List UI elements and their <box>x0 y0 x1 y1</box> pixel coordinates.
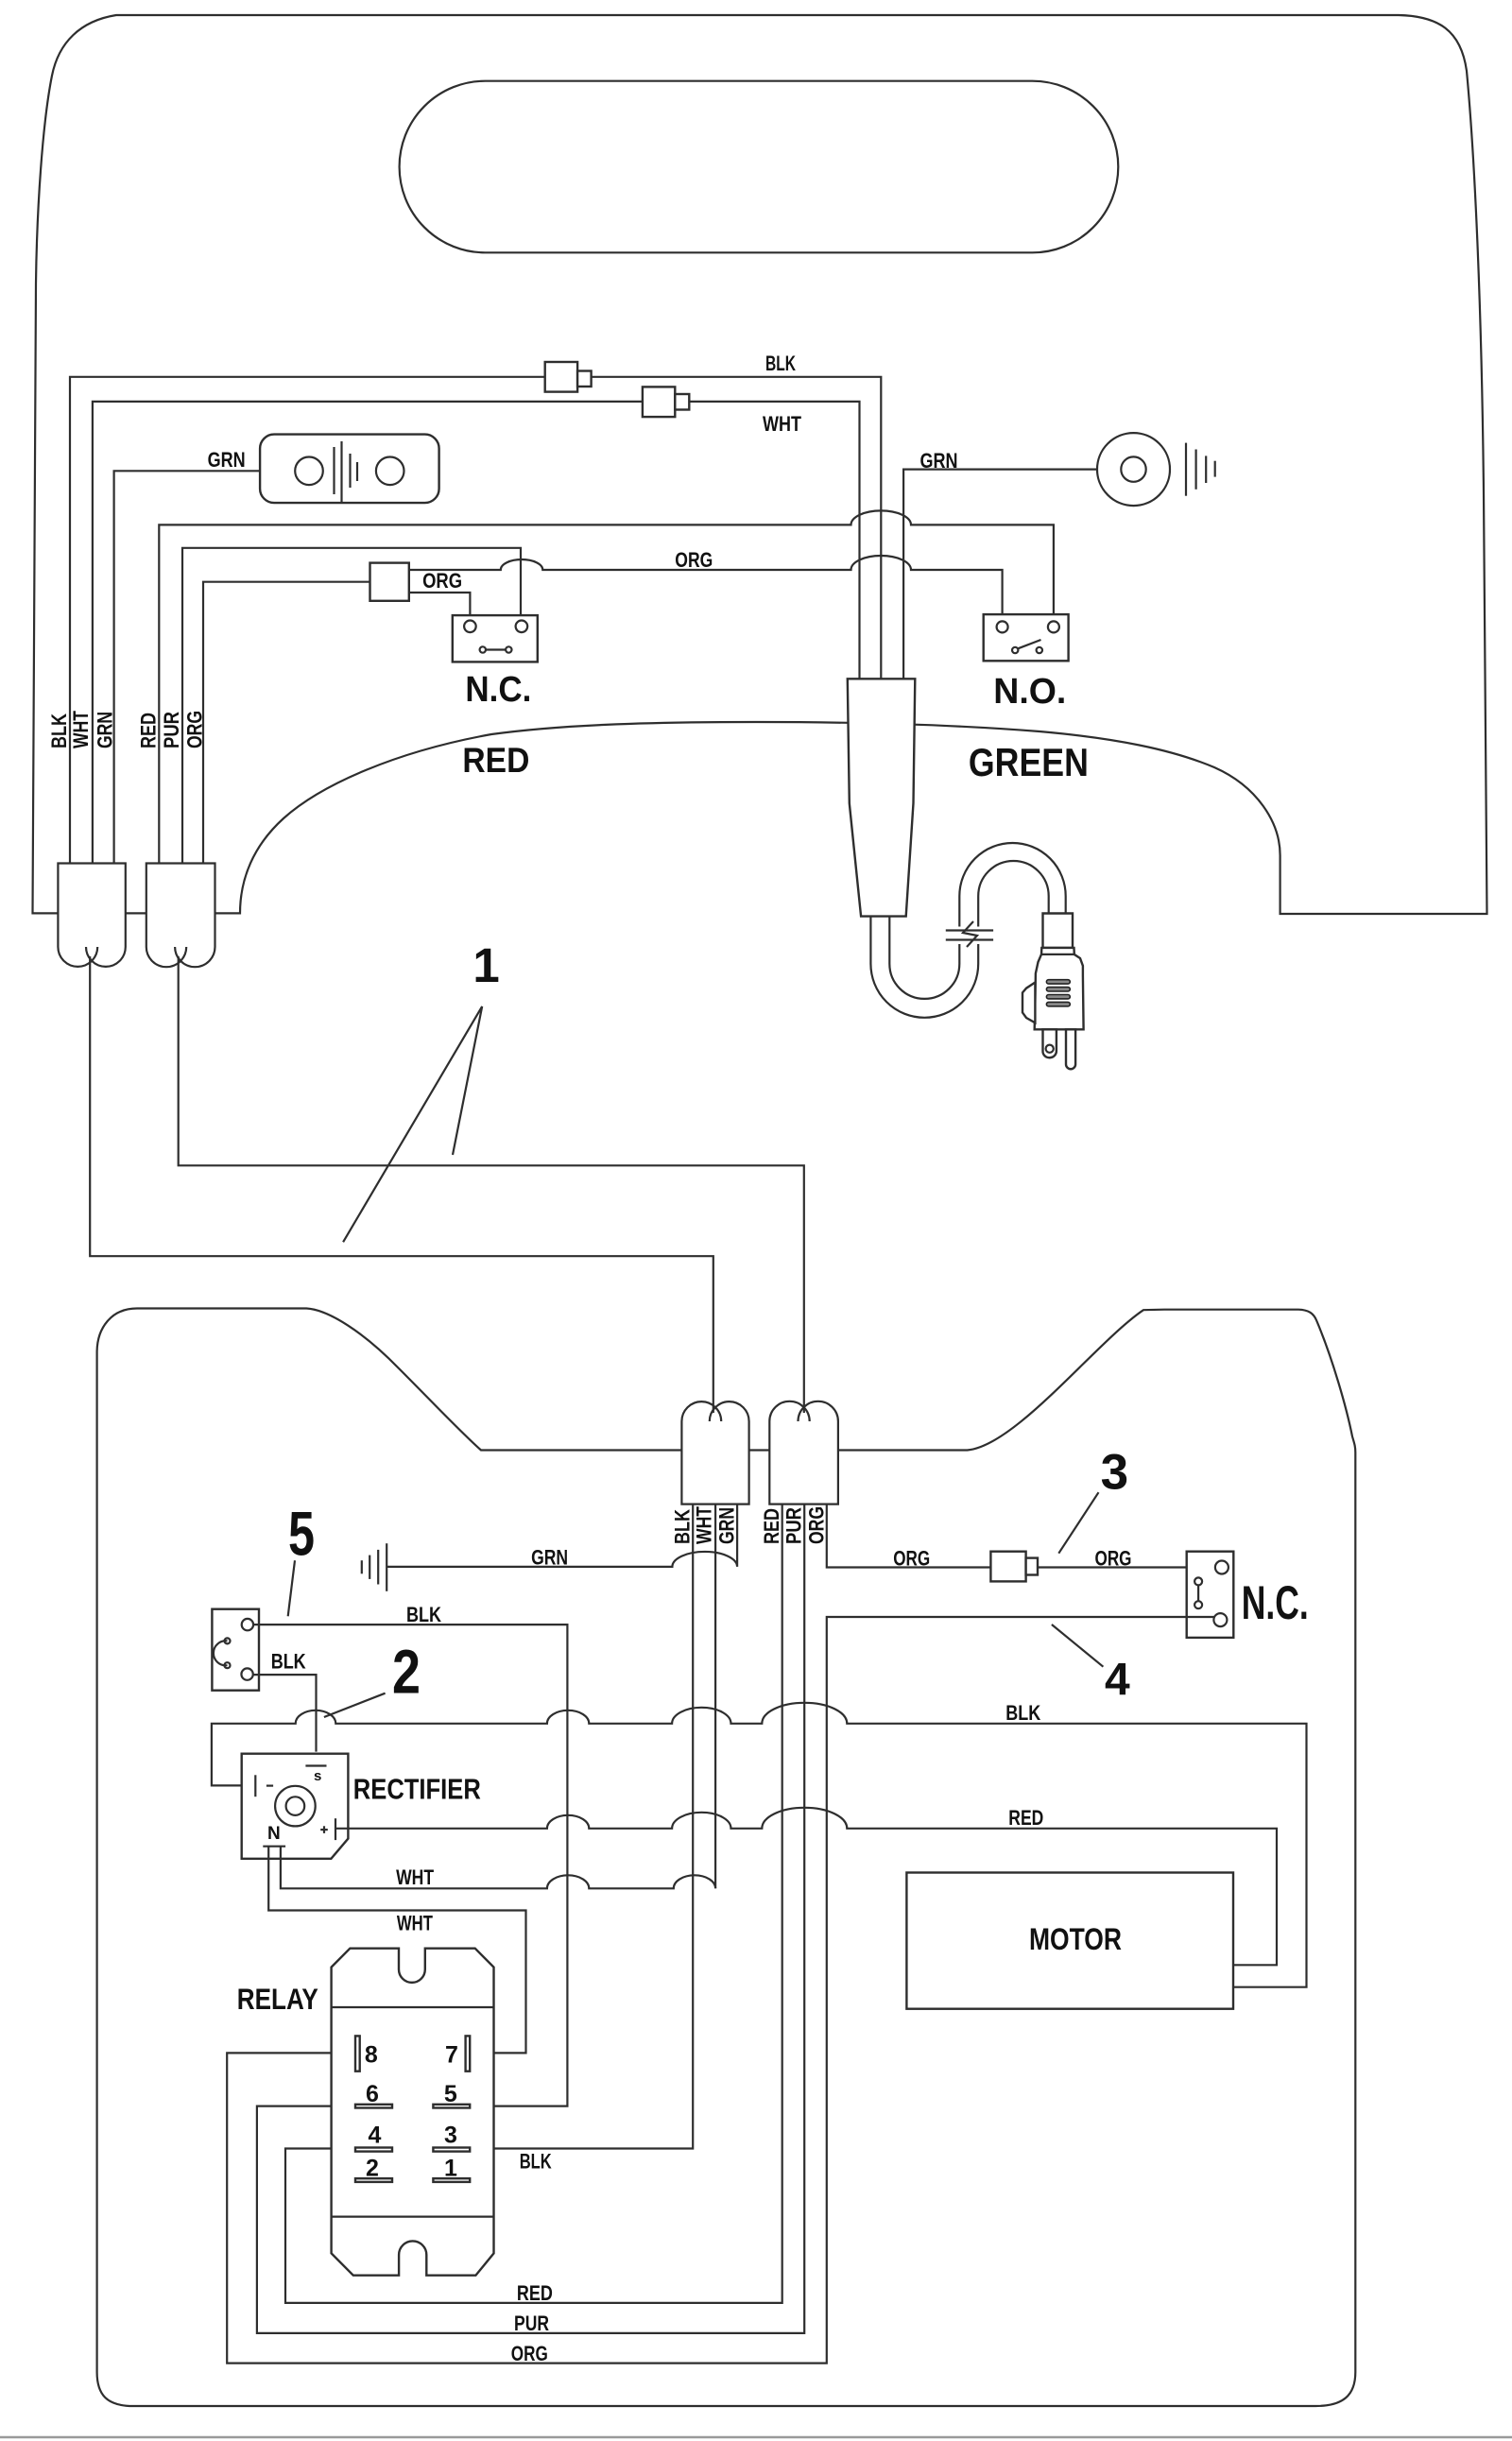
wire PUR cable to relay pin 6 <box>257 1504 804 2333</box>
svg-text:ORG: ORG <box>511 2342 548 2365</box>
wire ORG to N.C. left terminal <box>409 593 471 622</box>
cable sheath (lower right, 3-wire) <box>769 1401 838 1504</box>
svg-text:BLK: BLK <box>671 1509 695 1544</box>
leader line for callout 4 <box>1052 1624 1104 1667</box>
ground symbol (chassis) <box>362 1543 387 1591</box>
wire WHT rectifier(N) to relay pin 7 <box>268 1847 525 2054</box>
svg-text:PUR: PUR <box>514 2312 549 2335</box>
svg-text:RELAY: RELAY <box>237 1982 318 2016</box>
wire BLK from connector 5 to rectifier S <box>252 1675 317 1752</box>
strain relief boot (power cord) <box>848 679 916 916</box>
relay pin 3 <box>433 2148 470 2152</box>
page border line <box>0 2436 1512 2439</box>
connector 5 (2-pin plug) <box>212 1609 259 1691</box>
wire RED rectifier(+) to motor <box>335 1808 1277 1966</box>
cable 2 (to lower unit, right) <box>179 956 804 1413</box>
svg-text:BLK: BLK <box>765 352 796 375</box>
relay pin 8 <box>355 2036 360 2071</box>
svg-text:1: 1 <box>444 2156 457 2182</box>
svg-text:GREEN: GREEN <box>969 740 1089 784</box>
svg-text:BLK: BLK <box>271 1650 306 1674</box>
switch N.C. (red button) <box>453 615 538 662</box>
relay K1 <box>332 1949 494 2276</box>
cable sheath (upper right, 3-wire) <box>146 864 215 968</box>
rectifier U1 <box>242 1754 349 1859</box>
svg-text:N.C.: N.C. <box>1242 1576 1309 1629</box>
svg-text:WHT: WHT <box>69 711 93 748</box>
svg-text:N.C.: N.C. <box>465 670 531 710</box>
connector (inline, BLK bus) <box>545 362 592 392</box>
svg-text:5: 5 <box>444 2081 457 2107</box>
svg-text:N.O.: N.O. <box>993 672 1066 712</box>
svg-text:GRN: GRN <box>208 448 246 472</box>
power cord (U loop to plug) <box>870 861 1048 1018</box>
svg-text:ORG: ORG <box>675 548 713 572</box>
relay pin 2 <box>355 2178 392 2182</box>
svg-text:BLK: BLK <box>47 713 71 748</box>
svg-text:RED: RED <box>1008 1806 1043 1830</box>
wire ORG from sheath to connector <box>203 582 370 865</box>
svg-text:ORG: ORG <box>422 569 462 593</box>
svg-text:BLK: BLK <box>1005 1701 1040 1725</box>
svg-text:WHT: WHT <box>693 1506 716 1544</box>
wire ORG to inline connector and N.C. <box>827 1504 1215 1568</box>
power plug <box>1022 914 1084 1070</box>
wire RED cable to relay pin 4 <box>285 1504 782 2303</box>
wire GRN to terminal block <box>114 471 296 865</box>
cable sheath (upper left, 3-wire) <box>58 864 125 967</box>
cord break symbol <box>946 921 993 947</box>
svg-text:8: 8 <box>365 2041 378 2068</box>
wire GRN to ring terminal <box>903 470 1097 679</box>
relay pin 1 <box>433 2178 470 2182</box>
wire WHT rectifier(N) to cable <box>281 1847 715 1889</box>
wire BLK from connector 5 to relay pin 5 <box>253 1624 567 2106</box>
svg-text:4: 4 <box>369 2123 382 2149</box>
svg-text:7: 7 <box>445 2041 458 2068</box>
svg-text:GRN: GRN <box>715 1507 739 1544</box>
terminal block (GRN splice) <box>260 435 439 503</box>
leader line for callout 5 <box>288 1560 295 1616</box>
connector (inline, WHT bus) <box>643 387 689 417</box>
leader line for callout 2 <box>324 1693 386 1717</box>
svg-text:ORG: ORG <box>804 1506 828 1544</box>
svg-text:GRN: GRN <box>94 712 117 748</box>
svg-text:4: 4 <box>1105 1655 1130 1705</box>
base unit outline (lower housing) <box>97 1309 1356 2407</box>
wire ORG bus (long, to N.O. left) <box>409 556 1003 622</box>
svg-text:1: 1 <box>472 938 499 992</box>
svg-text:RED: RED <box>517 2281 553 2305</box>
connector 3 (inline, ORG) <box>990 1552 1038 1582</box>
leader lines for callout 1 <box>343 1006 482 1242</box>
wire BLK rectifier(-) to motor <box>212 1703 1307 1987</box>
wire WHT bus (upper) <box>93 402 860 865</box>
svg-text:PUR: PUR <box>782 1507 806 1544</box>
wire PUR to N.C. right terminal <box>182 548 521 865</box>
switch N.O. (green button) <box>984 614 1069 661</box>
svg-text:RED: RED <box>462 741 529 780</box>
relay pin 4 <box>355 2148 392 2152</box>
svg-text:RED: RED <box>760 1508 783 1544</box>
svg-text:ORG: ORG <box>1095 1547 1132 1571</box>
svg-text:3: 3 <box>444 2123 457 2149</box>
svg-text:PUR: PUR <box>160 712 183 748</box>
motor M1 <box>906 1873 1233 2009</box>
wire WHT (cable) <box>714 1504 716 1889</box>
leader line for callout 3 <box>1058 1492 1098 1554</box>
svg-text:GRN: GRN <box>920 449 958 473</box>
svg-text:5: 5 <box>288 1499 315 1569</box>
handle cutout <box>400 81 1119 253</box>
svg-text:6: 6 <box>366 2081 379 2107</box>
ring terminal (ground lug) <box>1097 433 1215 506</box>
svg-text:MOTOR: MOTOR <box>1029 1922 1122 1956</box>
svg-text:2: 2 <box>366 2156 379 2182</box>
connector (ORG splice box) <box>370 563 409 601</box>
wire GRN to chassis ground <box>387 1504 737 1567</box>
svg-text:WHT: WHT <box>396 1865 434 1889</box>
relay pin 6 <box>355 2105 392 2108</box>
svg-text:BLK: BLK <box>520 2150 552 2174</box>
wire BLK bus (upper) <box>70 377 881 865</box>
svg-text:s: s <box>314 1768 321 1784</box>
svg-text:N: N <box>267 1824 281 1844</box>
cable 1 (to lower unit, left) <box>90 956 713 1413</box>
svg-text:BLK: BLK <box>406 1603 441 1626</box>
svg-text:WHT: WHT <box>397 1912 433 1935</box>
wire RED bus to N.O. <box>159 510 1054 865</box>
svg-text:GRN: GRN <box>531 1546 568 1570</box>
control head outline (upper housing) <box>33 15 1487 914</box>
svg-text:ORG: ORG <box>182 711 206 748</box>
cable sheath (lower left, 3-wire) <box>681 1401 748 1504</box>
switch N.C. (lower, lid switch) <box>1187 1552 1234 1638</box>
svg-text:3: 3 <box>1101 1445 1128 1501</box>
relay pin 7 <box>466 2036 471 2071</box>
svg-text:WHT: WHT <box>763 412 801 436</box>
wire ORG return from N.C. to relay pin 8 <box>227 1617 1214 2364</box>
svg-text:RECTIFIER: RECTIFIER <box>353 1773 481 1806</box>
wire BLK cable to relay pin 3 <box>470 1504 693 2149</box>
svg-text:ORG: ORG <box>893 1547 930 1571</box>
svg-text:2: 2 <box>392 1637 421 1707</box>
relay pin 5 <box>433 2105 470 2108</box>
svg-text:RED: RED <box>136 713 160 748</box>
